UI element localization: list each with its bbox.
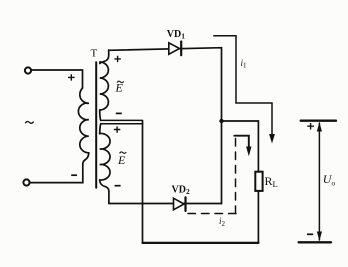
svg-text:T: T bbox=[91, 48, 98, 60]
svg-text:VD2: VD2 bbox=[172, 184, 190, 196]
svg-text:E: E bbox=[115, 81, 124, 95]
svg-text:VD1: VD1 bbox=[167, 29, 185, 41]
svg-text:E: E bbox=[117, 153, 126, 167]
